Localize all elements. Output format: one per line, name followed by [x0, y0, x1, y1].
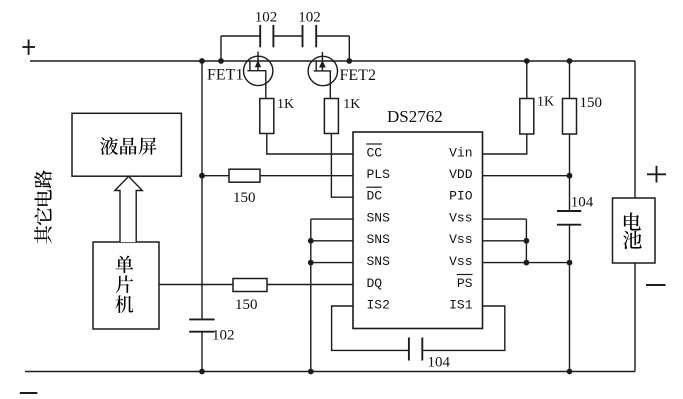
svg-text:102: 102 — [298, 9, 321, 25]
wire DQ right segment — [267, 284, 353, 286]
wire SNS2 pin — [311, 240, 353, 242]
wire battery top lead — [634, 61, 636, 198]
wire R5 to Vin pin — [483, 134, 527, 154]
svg-text:1K: 1K — [343, 97, 360, 112]
wire R6 to C5 — [569, 134, 571, 211]
wire R5 top lead — [526, 61, 528, 99]
wire IS2 pin loop — [332, 306, 409, 350]
capacitor C2 102 plates — [260, 25, 273, 47]
svg-text:1K: 1K — [537, 95, 554, 110]
node junction top rail / left branch — [199, 58, 205, 64]
battery B1 box — [613, 198, 656, 263]
svg-text:Vin: Vin — [449, 145, 472, 160]
wire left branch lower — [201, 332, 203, 372]
svg-text:IS2: IS2 — [367, 297, 390, 312]
svg-text:SNS: SNS — [367, 210, 391, 225]
svg-text:150: 150 — [580, 95, 603, 111]
svg-text:VDD: VDD — [449, 167, 473, 182]
node junction bottom rail / C5 branch — [567, 369, 573, 375]
node junction top rail / bypass left — [218, 58, 224, 64]
wire SNS1 pin — [311, 218, 353, 220]
svg-text:PS: PS — [457, 276, 473, 291]
resistor R2 1K — [324, 99, 338, 134]
wire PLS right segment — [260, 175, 353, 177]
battery plus mark — [647, 166, 666, 183]
node junction VDD tap — [567, 173, 573, 179]
capacitor C5 104 plates — [557, 211, 581, 225]
wire bypass segment 2 — [273, 35, 302, 37]
svg-text:SNS: SNS — [367, 232, 391, 247]
pin label CC (left row 1) — [366, 144, 382, 160]
wire bypass segment 1 — [221, 35, 260, 37]
wire Vss2 pin — [483, 240, 527, 242]
node junction Vss3 / C5 branch — [567, 260, 573, 266]
svg-text:DC: DC — [367, 189, 383, 204]
capacitor C4 104 plates — [409, 338, 422, 361]
transistor FET1 — [244, 52, 273, 99]
wire bypass right drop — [348, 36, 350, 61]
pin label PS (right row 7) — [457, 275, 473, 291]
capacitor C1 102 plates — [189, 319, 214, 331]
label 其它电路 (other circuits, rotated) — [34, 170, 52, 243]
svg-text:FET1: FET1 — [207, 66, 243, 83]
wire bypass segment 3 — [316, 35, 349, 37]
svg-text:PIO: PIO — [449, 189, 473, 204]
svg-text:Vss: Vss — [449, 232, 472, 247]
op-amp U1 DS2762 body — [353, 132, 483, 329]
svg-text:IS1: IS1 — [449, 297, 473, 312]
wire bottom negative rail — [25, 371, 635, 373]
svg-text:CC: CC — [367, 145, 383, 160]
svg-text:102: 102 — [255, 9, 278, 25]
svg-text:150: 150 — [235, 297, 258, 313]
wire Vss3 pin — [483, 262, 570, 264]
MCU label 单片机 — [115, 256, 133, 313]
resistor R3 150 — [229, 169, 260, 182]
svg-text:FET2: FET2 — [340, 67, 376, 84]
node junction top rail / R6 — [567, 58, 573, 64]
wire SNS3 pin — [311, 262, 353, 264]
LCD label 液晶屏 — [100, 137, 156, 155]
svg-text:150: 150 — [233, 190, 256, 206]
node junction top rail / bypass right — [346, 58, 352, 64]
wire C5 to bottom rail — [569, 225, 571, 372]
wire VDD pin — [483, 175, 570, 177]
wire left branch upper — [201, 61, 203, 319]
svg-text:DQ: DQ — [367, 276, 383, 291]
wire DQ left segment — [159, 284, 233, 286]
resistor R6 150 — [563, 99, 577, 135]
svg-text:PLS: PLS — [367, 167, 391, 182]
minus terminal bottom-left — [20, 392, 38, 394]
node junction top rail / R5 — [524, 58, 530, 64]
wire R1 to CC pin — [267, 134, 353, 155]
plus terminal top-left — [22, 40, 35, 55]
svg-text:1K: 1K — [277, 97, 294, 112]
transistor FET2 — [308, 52, 337, 99]
svg-text:102: 102 — [212, 328, 235, 344]
svg-text:104: 104 — [428, 355, 451, 371]
wire Vss1 pin — [483, 218, 527, 220]
svg-text:104: 104 — [571, 194, 594, 210]
capacitor C3 102 plates — [303, 25, 317, 47]
wire PLS left segment — [202, 175, 229, 177]
svg-text:Vss: Vss — [449, 210, 472, 225]
MCU box — [93, 242, 159, 329]
battery minus mark — [646, 284, 666, 286]
node junction Vss3 bus — [524, 260, 530, 266]
battery label 电池 — [623, 213, 642, 250]
wire Vss bus vertical — [525, 219, 527, 263]
svg-text:DS2762: DS2762 — [387, 107, 443, 126]
wire top positive rail — [30, 60, 635, 62]
bus arrow MCU to LCD — [115, 176, 143, 242]
wire IS1 pin loop — [422, 306, 505, 350]
svg-text:Vss: Vss — [449, 254, 472, 269]
node junction SNS bus / bottom rail — [308, 369, 314, 375]
node junction bottom rail / left branch — [199, 369, 205, 375]
LCD module box — [72, 113, 181, 176]
pin label DC (left row 3) — [366, 187, 382, 203]
node junction PLS tap — [199, 173, 205, 179]
svg-text:SNS: SNS — [367, 254, 391, 269]
wire R2 to DC pin — [331, 134, 353, 198]
node junction SNS3 — [308, 260, 314, 266]
node junction SNS2 — [308, 238, 314, 244]
resistor R1 1K — [260, 99, 274, 134]
wire SNS bus vertical — [310, 219, 312, 371]
wire battery bottom lead — [634, 263, 636, 372]
node junction Vss2 — [524, 238, 530, 244]
resistor R5 1K — [520, 99, 534, 135]
wire bypass left drop — [220, 36, 222, 61]
wire R6 top lead — [569, 61, 571, 99]
resistor R4 150 — [233, 279, 267, 292]
